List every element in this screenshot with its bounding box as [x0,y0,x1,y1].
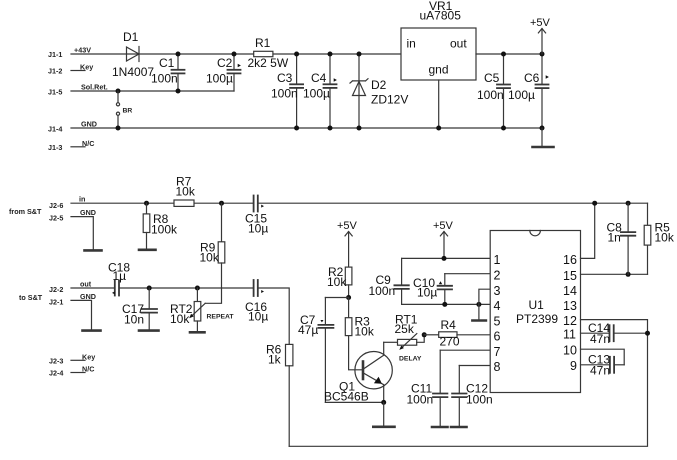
value label uA7805 [420,9,462,23]
svg-text:R1: R1 [255,36,271,50]
svg-text:100n: 100n [271,87,298,101]
wire R4 to U1 pin 6 [457,334,490,336]
value label C1 [159,56,175,70]
svg-text:from S&T: from S&T [9,207,42,216]
svg-text:gnd: gnd [429,63,449,77]
value label 10k (RT2) [170,312,190,326]
svg-text:+5V: +5V [337,220,358,232]
capacitor C4 (electrolytic) [324,54,337,128]
pin number 12 [563,314,577,328]
value label R1 [255,36,271,50]
capacitor C9 [394,258,408,304]
junction emitter/C7 node [381,400,386,405]
junction C6 bottom [540,126,545,131]
svg-text:GND: GND [80,208,96,217]
value label C3 [277,71,293,85]
svg-text:out: out [80,280,92,289]
svg-text:out: out [450,37,467,51]
svg-text:1: 1 [494,253,501,267]
connector pin J1-2 label [48,67,62,76]
svg-text:1µ: 1µ [113,269,127,283]
transistor Q1 BC546B [355,342,392,402]
wire VR1 out to +5V node [476,53,542,55]
value label C14 [588,321,610,335]
svg-text:D1: D1 [123,30,139,44]
svg-text:C1: C1 [159,56,175,70]
power symbol +5V (C10 branch) [440,232,447,259]
svg-text:1n: 1n [608,231,621,245]
svg-text:11: 11 [563,328,576,342]
junction C3 top [294,52,299,57]
svg-text:10µ: 10µ [248,310,268,324]
pin number 6 [494,330,501,344]
junction C4 bottom [328,126,333,131]
pin label in (VR1) [407,37,416,51]
value label C16 [245,300,267,314]
connector pin J1-4 label [48,125,62,134]
value label R8 [153,212,169,226]
capacitor C18 (electrolytic, in series) [112,281,119,296]
node GND net label (J2-1) [80,292,96,301]
pin label gnd (VR1) [429,63,449,77]
svg-text:2k2 5W: 2k2 5W [248,56,289,70]
node +43V net label [74,46,91,55]
ground symbol (pins 3/4) [472,319,486,322]
value label C2 [217,56,233,70]
value label R3 [355,315,371,329]
wire J1-2 Key stub [71,70,85,72]
resistor R4 [439,332,457,338]
value label 1n (C8) [608,231,621,245]
connector pin J2-3 label [49,357,63,366]
svg-text:100n: 100n [369,284,396,298]
value label PT2399 [516,312,558,326]
junction C3 bottom [294,126,299,131]
node DELAY label [399,356,422,363]
wire U1 pin 8 to C12 [459,365,490,367]
value label D1 [123,30,139,44]
capacitor C17 [142,288,158,330]
wire U1 pin 1 rail [402,257,491,259]
junction R9 tap on in net [219,201,224,206]
connector pin J2-6 label [49,201,63,210]
capacitor C2 (electrolytic) [228,54,241,91]
svg-text:C6: C6 [524,71,540,85]
wire C15 to R5/C8 corner (audio in top rail) [259,202,648,204]
junction C10 bottom [442,302,447,307]
capacitor C13 [610,357,624,373]
ground symbol (C17) [139,329,159,332]
capacitor C5 [497,54,510,128]
value label 100µ (C6) [508,88,535,102]
svg-text:+5V: +5V [433,220,454,232]
svg-text:3: 3 [494,284,501,298]
value label 1N4007 [112,65,154,79]
wire U1 pin 3 jog [479,289,490,304]
svg-text:J2-1: J2-1 [49,298,63,307]
wire R1 to VR1 input [273,53,401,55]
value label C10 [413,276,435,290]
svg-text:PT2399: PT2399 [516,312,558,326]
svg-text:R4: R4 [441,318,457,332]
svg-text:1k: 1k [268,353,282,367]
junction C8 top on in rail [626,201,631,206]
junction +5V on pin1 rail [442,256,447,261]
junction RT1 wiper / R4 [422,332,427,337]
regulator VR1 box [401,28,476,80]
svg-text:U1: U1 [529,298,545,312]
node GND net label (J2-5) [80,208,96,217]
pin number 2 [494,269,501,283]
svg-text:100n: 100n [477,88,504,102]
value label 10n (C17) [124,313,144,327]
value label 2k2 5W [248,56,289,70]
value label 1k (R6) [268,353,282,367]
node Key net label (J2-3) [82,353,95,362]
zener diode D2 [350,54,368,128]
wire J2-1 GND to ground [71,300,92,329]
capacitor C16 (electrolytic, in series) [254,280,264,296]
node +5V label (C10 branch) [433,220,454,232]
value label 100µ (C2) [206,72,233,86]
value label 25k (RT1) [395,322,415,336]
node BR label [123,108,133,115]
wire Q1 collector to RT1 [384,341,398,343]
value label R4 [441,318,457,332]
value label R5 [655,221,671,235]
wire C18 to C16 [120,287,253,289]
resistor R1 [254,51,273,56]
capacitor C15 (electrolytic, in series) [254,196,264,212]
value label R9 [200,241,216,255]
ground symbol (C11) [432,426,448,429]
junction C1 bottom on Sol.Ret. [176,89,181,94]
wire U1 pin 11 to C14 [581,332,609,334]
value label 100n (C9) [369,284,396,298]
ground symbol (top section, below C6) [533,128,554,147]
wire J2-3 Key stub [71,359,85,361]
value label C13 [588,353,610,367]
svg-text:BC546B: BC546B [324,390,369,404]
svg-text:10n: 10n [124,313,144,327]
svg-text:10k: 10k [170,312,190,326]
node out net label [80,280,92,289]
svg-text:100n: 100n [407,393,434,407]
node +5V label (top right) [530,17,551,29]
wire C16 to R6 corner [259,288,290,344]
value label 100n (C3) [271,87,298,101]
pin number 1 [494,253,501,267]
junction pin16 riser on in rail [592,201,597,206]
junction C5 top [501,52,506,57]
svg-text:in: in [79,195,85,204]
resistor R5 [644,203,651,274]
svg-text:10k: 10k [355,325,375,339]
node Sol.Ret. net label [81,83,108,92]
diode D1 [127,47,140,62]
svg-text:15: 15 [563,269,577,283]
capacitor C8 [621,203,635,274]
value label 10k (R2) [327,275,347,289]
connector pin J1-5 label [48,88,62,97]
wire VR1 gnd to GND rail [438,80,440,128]
pin number 13 [563,299,577,313]
svg-text:+43V: +43V [74,46,91,55]
capacitor C10 (electrolytic) [438,274,452,305]
value label U1 [529,298,545,312]
connector pin J2-1 label [49,298,63,307]
value label C12 [466,382,488,396]
svg-text:100µ: 100µ [303,87,330,101]
svg-text:10k: 10k [200,251,220,265]
wire U1 pin 10 loop [581,349,625,365]
trimmer RT1 [398,334,425,350]
resistor R7 [174,200,194,206]
wire in net J2-6 to R7 [71,202,174,204]
value label ZD12V [371,93,408,107]
junction C14/pin12/feedback riser [645,331,650,336]
value label 1µ (C18) [113,269,127,283]
node GND net label (J1-4) [81,120,97,129]
jumper BR open link [116,91,119,128]
wire U1 pin 12 loop to C14 rail [581,320,648,334]
junction R8 tap on in net [144,201,149,206]
ground symbol (J2-1) [83,329,101,332]
wire U1 pin 7 to C11 [440,349,490,351]
svg-text:ZD12V: ZD12V [371,93,408,107]
value label 10µ (C16) [248,310,268,324]
svg-text:J1-5: J1-5 [48,88,62,97]
svg-text:10k: 10k [176,185,196,199]
junction C6 top [540,52,545,57]
svg-text:J1-2: J1-2 [48,67,62,76]
wire U1 pin 9 to C13 [581,364,609,366]
value label C9 [376,273,392,287]
value label 100k (R8) [151,223,178,237]
junction Sol.Ret./BR [116,89,121,94]
wire U1 pin 15 rail [581,273,648,275]
ground symbol (RT2) [190,331,205,334]
value label 10k (R7) [176,185,196,199]
svg-text:13: 13 [563,299,577,313]
svg-text:10k: 10k [655,231,675,245]
svg-text:C2: C2 [217,56,233,70]
wire out net J2-2 to C18 [71,287,114,289]
svg-text:270: 270 [440,335,460,349]
capacitor C1 [172,54,185,91]
junction C8 bottom on pin15 rail [626,272,631,277]
svg-text:9: 9 [570,359,577,373]
wire feedback bottom rail R6 to right riser [289,333,647,446]
svg-text:to S&T: to S&T [19,293,43,302]
svg-text:in: in [407,37,416,51]
svg-text:J2-4: J2-4 [49,369,63,378]
value label C8 [607,221,623,235]
svg-text:Sol.Ret.: Sol.Ret. [81,83,108,92]
wire J2-5 GND to ground [71,217,93,250]
connector pin J2-5 label [49,214,63,223]
pin number 7 [494,345,501,359]
value label R2 [328,265,344,279]
junction C17 tap on out net [147,286,152,291]
value label C15 [245,212,267,226]
svg-text:J1-4: J1-4 [48,125,62,134]
node N/C label (J2-4) [82,365,94,374]
node in net label [79,195,85,204]
wire Sol.Ret. net J1-5 to C2 bottom [71,90,234,92]
svg-text:10µ: 10µ [248,222,268,236]
value label 10µ (C15) [248,222,268,236]
junction C4 top [328,52,333,57]
svg-text:D2: D2 [371,78,387,92]
value label R6 [266,343,282,357]
wire R7 to C15 [194,202,253,204]
svg-text:47n: 47n [590,332,610,346]
value label 100n (C11) [407,393,434,407]
junction C2 top on raw rail [232,52,237,57]
svg-text:J1-1: J1-1 [48,50,62,59]
value label 47µ (C7) [298,323,318,337]
value label VR1 [429,0,453,13]
connector pin J2-4 label [49,369,63,378]
svg-text:C3: C3 [277,71,293,85]
node from S&T label [9,207,42,216]
svg-text:100n: 100n [151,72,178,86]
svg-text:J1-3: J1-3 [48,143,62,152]
svg-text:J2-3: J2-3 [49,357,63,366]
svg-text:J2-6: J2-6 [49,201,63,210]
wire RT1 junction to R4 [424,334,439,336]
junction C5 bottom [501,126,506,131]
value label 47n (C13) [590,364,610,378]
value label C4 [311,71,327,85]
node +5V label (R2 branch) [337,220,358,232]
svg-text:+5V: +5V [530,17,551,29]
value label 270 (R4) [440,335,460,349]
wire J1-3 N/C stub [71,146,85,148]
junction RT2 tap on out net [195,286,200,291]
svg-text:16: 16 [563,253,577,267]
svg-text:10: 10 [563,344,577,358]
pin number 15 [563,269,577,283]
ground symbol (R8) [139,249,156,252]
wire U1 pin 16 riser to in rail [581,203,595,258]
svg-text:J2-2: J2-2 [49,285,63,294]
value label 100n (C5) [477,88,504,102]
IC U1 PT2399 box [490,231,580,393]
svg-text:BR: BR [123,108,133,115]
resistor R6 [286,344,293,446]
value label D2 [371,78,387,92]
pin number 9 [570,359,577,373]
value label 10k (R5) [655,231,675,245]
capacitor C11 [433,350,447,426]
value label C6 [524,71,540,85]
value label C11 [411,382,432,396]
junction C1 top on +43V rail [176,52,181,57]
svg-text:5: 5 [494,315,501,329]
junction R2/R3/C7 node [346,295,351,300]
capacitor C12 [452,366,466,427]
junction D2 top [357,52,362,57]
value label 100n (C12) [466,393,493,407]
pin number 3 [494,284,501,298]
ground symbol (Q1 emitter) [373,425,394,428]
resistor R3 [345,298,363,370]
wire +43V rail J1-1 to D1 anode [71,53,254,55]
svg-text:12: 12 [563,314,577,328]
resistor R8 [143,203,150,249]
pin number 10 [563,344,577,358]
svg-text:8: 8 [494,360,501,374]
svg-text:10k: 10k [327,275,347,289]
svg-text:J2-5: J2-5 [49,214,63,223]
wire GND rail (top section) [71,127,542,129]
value label C18 [108,261,130,275]
svg-text:7: 7 [494,345,501,359]
node REPEAT label [207,314,235,321]
svg-text:DELAY: DELAY [399,356,422,363]
svg-text:25k: 25k [395,322,415,336]
svg-text:100n: 100n [466,393,493,407]
pin number 4 [494,299,501,313]
junction pin3 riser on ground rail [476,302,481,307]
node to S&T label [19,293,43,302]
value label RT1 [395,313,418,327]
value label 47n (C14) [590,332,610,346]
value label 10µ (C10) [417,286,437,300]
power symbol +5V (top right) [538,29,545,55]
value label 10k (R3) [355,325,375,339]
pin number 11 [563,328,576,342]
svg-text:100µ: 100µ [206,72,233,86]
pin number 16 [563,253,577,267]
value label 10k (R9) [200,251,220,265]
svg-text:GND: GND [81,120,97,129]
wire R2 node to C7 branch [325,297,348,299]
value label RT2 [170,302,193,316]
capacitor C3 [290,54,303,128]
capacitor C6 (electrolytic) [536,54,549,128]
resistor R2 [345,267,352,297]
junction D2 bottom [357,126,362,131]
connector pin J1-3 label [48,143,62,152]
wire analog ground rail (C9/C10/pin3/pin4) [402,303,491,305]
svg-text:1N4007: 1N4007 [112,65,154,79]
ground symbol (J2-5) [85,249,102,252]
power symbol +5V (R2 branch) [345,232,352,268]
svg-text:uA7805: uA7805 [420,9,462,23]
value label C7 [300,313,316,327]
trimmer RT2 [189,288,205,331]
value label BC546B [324,390,369,404]
svg-text:10µ: 10µ [417,286,437,300]
node N/C label (J1-3) [82,139,94,148]
svg-text:GND: GND [80,292,96,301]
wire U1 pin 2 to C10 [445,273,490,275]
junction VR1 gnd on GND rail [436,126,441,131]
value label Q1 [339,380,355,394]
svg-text:100k: 100k [151,223,178,237]
junction BR on GND rail [116,126,121,131]
svg-text:100µ: 100µ [508,88,535,102]
svg-text:2: 2 [494,269,501,283]
svg-text:C4: C4 [311,71,327,85]
capacitor C14 [610,325,648,341]
ground symbol (C12) [451,426,467,429]
wire emitter node to ground [383,402,385,425]
connector pin J1-1 label [48,50,62,59]
